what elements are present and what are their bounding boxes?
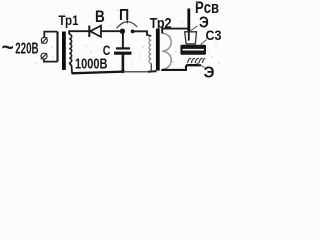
leader line to С3 label	[200, 40, 207, 46]
transformer Tp1 core	[62, 32, 66, 71]
wire: diode to junction	[101, 30, 121, 32]
terminal: top input clamp circle	[41, 37, 47, 43]
svg-text:~: ~	[2, 37, 14, 60]
label ~220В (mains voltage)	[2, 37, 39, 60]
node: junction dot (capacitor tap / switch left contact)	[120, 29, 125, 34]
spark plug top terminal stem	[187, 9, 190, 32]
label э (lower electrode)	[204, 64, 215, 81]
spark plug body slab	[180, 45, 206, 55]
svg-text:П: П	[119, 7, 129, 24]
label С3 (spark plug)	[206, 28, 222, 43]
wire: bottom rail at Tp2	[148, 70, 157, 73]
wire: Tp2 primary top connection	[147, 34, 151, 37]
capacitor C top lead	[122, 33, 124, 48]
wire: secondary top lead to diode	[69, 31, 88, 34]
node: capacitor-rail junction	[121, 70, 125, 74]
capacitor C bottom plate	[114, 52, 132, 55]
svg-text:Э: Э	[204, 64, 215, 79]
wire: switch to Tp2	[133, 31, 147, 35]
wire: Tp2 secondary top lead to spark plug	[162, 29, 189, 34]
svg-text:В: В	[95, 8, 105, 26]
svg-text:1000В: 1000В	[75, 56, 108, 73]
label Рсв	[195, 0, 219, 17]
svg-text:С3: С3	[206, 28, 222, 43]
wire: AC bottom lead from terminal to primary	[44, 59, 58, 61]
diode B cathode bar	[88, 26, 90, 38]
wire: Tp2 primary bottom to rail	[150, 63, 152, 71]
transformer Tp2 secondary winding (two large arcs)	[162, 33, 171, 69]
wire: bottom rail Tp1 to capacitor	[72, 72, 124, 74]
capacitor C top plate	[116, 47, 130, 49]
label Tp2	[150, 16, 172, 32]
transformer Tp2 primary winding (bumps)	[149, 36, 151, 64]
label Tp1	[58, 13, 78, 28]
wire: AC top lead from terminal to primary	[44, 32, 57, 38]
switch П blade arc with knob	[117, 20, 138, 29]
diode B triangle	[90, 26, 101, 37]
label П (switch)	[119, 7, 129, 24]
spark plug insulator box	[185, 32, 197, 44]
spark plug bottom electrode bar	[186, 64, 201, 66]
transformer Tp1 secondary winding (bumps)	[69, 34, 71, 63]
wire: Tp2 secondary bottom lead to bottom electrode	[162, 65, 186, 70]
label э (upper electrode)	[199, 15, 209, 32]
wire: bottom rail capacitor to Tp2 (faint in scan)	[124, 71, 149, 73]
svg-text:220В: 220В	[15, 40, 38, 57]
terminal: bottom input clamp circle	[41, 53, 47, 59]
label C (capacitor)	[103, 42, 111, 58]
switch П right contact dot	[131, 30, 135, 34]
spark plug thread squiggles	[188, 58, 206, 63]
transformer Tp1 primary winding	[56, 32, 58, 62]
wire: Tp1 secondary bottom lead	[69, 63, 72, 73]
label 1000В (secondary voltage)	[75, 56, 108, 73]
svg-text:Тр1: Тр1	[58, 13, 78, 28]
leader line to lower electrode label	[197, 63, 205, 68]
label B (diode)	[95, 8, 105, 26]
transformer Tp2 core	[156, 29, 160, 71]
scan speckles (noise)	[35, 2, 219, 64]
leader line to upper electrode label	[191, 26, 198, 31]
capacitor C bottom lead	[122, 55, 125, 72]
